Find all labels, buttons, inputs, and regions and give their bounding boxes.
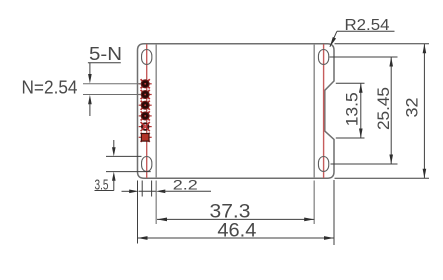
pad pin6 (square pad) bbox=[139, 133, 152, 142]
slot hole bottom-left bbox=[142, 157, 152, 172]
board outline (PCB module body with notched right edge) bbox=[138, 44, 335, 179]
red silk line left bbox=[146, 44, 148, 178]
dimension 46.4 line and arrows bbox=[138, 236, 335, 240]
slot hole top-left bbox=[142, 50, 152, 65]
svg-text:13.5: 13.5 bbox=[342, 92, 361, 126]
red silk line right bbox=[323, 44, 325, 178]
extension line slot bottom-right center bbox=[331, 163, 398, 165]
dimension 25.45 line and arrows bbox=[389, 57, 393, 164]
extension stub right pin6 level bbox=[336, 137, 365, 139]
extension stub right pin1 level bbox=[336, 82, 365, 84]
pad pin4 bbox=[139, 111, 152, 120]
svg-text:2.2: 2.2 bbox=[173, 176, 198, 192]
leader underline of 5-N bbox=[88, 62, 121, 64]
dimension 32 line and arrows bbox=[423, 44, 427, 179]
svg-text:32: 32 bbox=[403, 98, 422, 118]
pad pin1 bbox=[139, 79, 152, 88]
pad pin2 bbox=[139, 90, 152, 99]
extension line board top edge right bbox=[335, 43, 430, 45]
dimension 2.2 line and arrows bbox=[122, 190, 212, 194]
inner line right (display area boundary) bbox=[313, 44, 315, 178]
extension line slot right edge down bbox=[151, 181, 153, 197]
dimension 3.5 arrows bbox=[95, 140, 116, 191]
dimension 3.5 extension line bottom (slot bottom) bbox=[106, 171, 151, 173]
svg-text:46.4: 46.4 bbox=[217, 220, 256, 241]
slot hole bottom-right bbox=[318, 157, 328, 172]
extension line from pin1 bbox=[83, 83, 141, 85]
leader R2.54 with arrow to top-right slot bbox=[330, 31, 395, 47]
extension line board bottom edge right bbox=[335, 177, 430, 179]
pad pin5 (ring pad) bbox=[139, 122, 152, 131]
extension line inner-right line down bbox=[313, 181, 315, 225]
inner line left (display area boundary) bbox=[155, 44, 157, 178]
dimension arrow up to pin2 line (N=2.54) bbox=[88, 95, 92, 116]
dimension 3.5 extension line top (slot top) bbox=[106, 155, 142, 157]
svg-text:5-N: 5-N bbox=[89, 44, 122, 64]
extension line from pin2 bbox=[83, 94, 141, 96]
dimension 13.5 line and arrows bbox=[359, 83, 363, 138]
svg-text:37.3: 37.3 bbox=[210, 201, 251, 222]
svg-text:N=2.54: N=2.54 bbox=[22, 78, 78, 98]
leader vertical from 5-N with arrow to pin1 line bbox=[88, 63, 92, 84]
dimension 37.3 line and arrows bbox=[157, 218, 314, 222]
extension line board left edge down bbox=[137, 181, 139, 244]
extension line inner-left line down bbox=[155, 181, 157, 225]
svg-text:3.5: 3.5 bbox=[95, 177, 109, 194]
extension line slot left edge down bbox=[141, 181, 143, 197]
extension line board right edge down bbox=[333, 180, 335, 245]
svg-text:25.45: 25.45 bbox=[374, 87, 393, 130]
slot hole top-right bbox=[318, 50, 328, 65]
pad pin3 bbox=[139, 101, 152, 110]
extension line slot top-right center bbox=[330, 56, 398, 58]
